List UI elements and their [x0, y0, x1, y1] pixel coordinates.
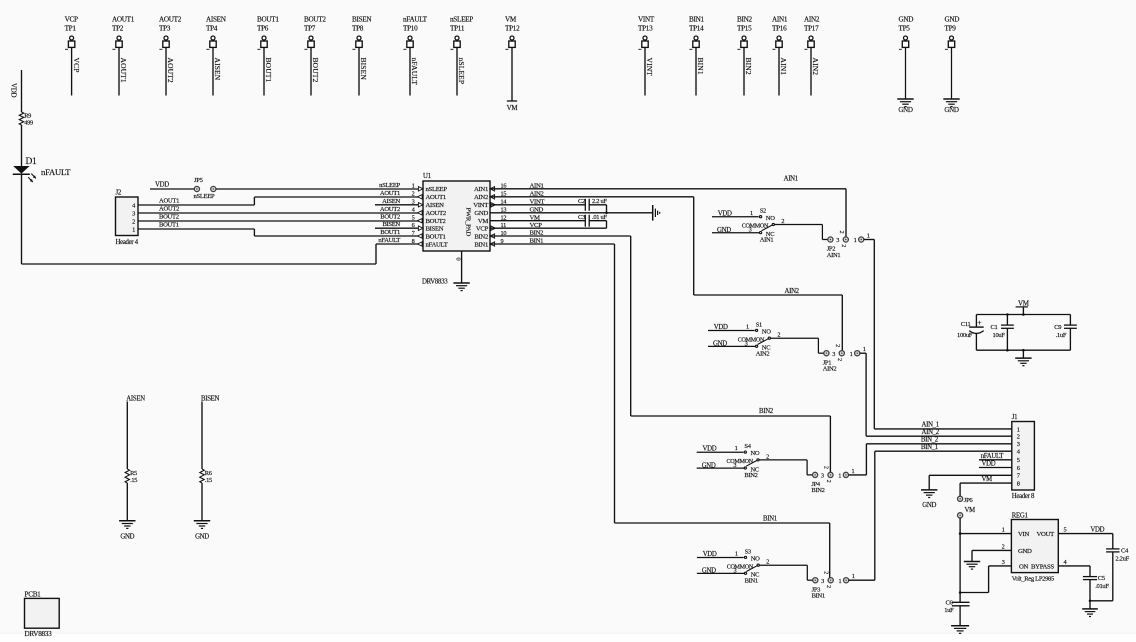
- svg-text:2: 2: [132, 218, 135, 225]
- svg-text:C3: C3: [578, 214, 585, 221]
- svg-text:3: 3: [821, 473, 824, 480]
- svg-text:VCP: VCP: [476, 226, 489, 233]
- svg-text:AIN_2: AIN_2: [922, 429, 940, 436]
- svg-text:TP13: TP13: [638, 25, 653, 33]
- svg-text:AIN1: AIN1: [827, 252, 841, 259]
- svg-text:1: 1: [746, 324, 749, 331]
- svg-text:VIN: VIN: [1018, 531, 1029, 538]
- svg-text:BOUT1: BOUT1: [264, 58, 273, 83]
- svg-text:S4: S4: [744, 443, 751, 450]
- svg-text:R6: R6: [205, 470, 212, 477]
- svg-text:VM: VM: [478, 218, 489, 225]
- svg-text:1: 1: [854, 237, 857, 244]
- svg-text:C2: C2: [578, 198, 585, 205]
- svg-text:AIN2: AIN2: [823, 366, 837, 373]
- svg-text:AIN2: AIN2: [804, 16, 820, 24]
- svg-text:TP11: TP11: [450, 25, 465, 33]
- svg-text:3: 3: [749, 227, 752, 234]
- svg-text:U1: U1: [423, 173, 431, 180]
- svg-text:AIN1: AIN1: [772, 16, 788, 24]
- svg-text:C9: C9: [1054, 324, 1061, 331]
- svg-text:PWR_PAD: PWR_PAD: [465, 208, 472, 237]
- svg-text:AOUT1: AOUT1: [112, 16, 135, 24]
- svg-text:TP6: TP6: [257, 25, 269, 33]
- svg-text:BOUT2: BOUT2: [304, 16, 326, 24]
- svg-text:AOUT1: AOUT1: [380, 190, 400, 197]
- svg-text:NO: NO: [751, 450, 760, 457]
- svg-text:Header 4: Header 4: [116, 239, 139, 246]
- svg-text:2: 2: [412, 191, 415, 198]
- svg-text:2: 2: [838, 231, 844, 234]
- svg-text:1: 1: [867, 232, 870, 239]
- svg-text:1: 1: [412, 183, 415, 190]
- svg-text:2: 2: [823, 466, 829, 469]
- svg-text:VM: VM: [965, 507, 976, 514]
- svg-text:BOUT1: BOUT1: [257, 16, 279, 24]
- svg-text:2: 2: [777, 332, 780, 339]
- svg-text:2: 2: [1002, 544, 1005, 551]
- svg-text:AOUT2: AOUT2: [426, 210, 446, 217]
- svg-text:3: 3: [132, 210, 135, 217]
- svg-text:BIN2: BIN2: [811, 487, 824, 494]
- svg-text:AIN2: AIN2: [811, 58, 820, 76]
- svg-text:BISEN: BISEN: [359, 58, 368, 81]
- svg-text:1: 1: [838, 473, 841, 480]
- svg-text:VCP: VCP: [65, 16, 78, 24]
- svg-text:AISEN: AISEN: [206, 16, 227, 24]
- svg-text:AIN2: AIN2: [756, 350, 770, 357]
- svg-text:TP2: TP2: [112, 25, 124, 33]
- svg-text:2: 2: [781, 218, 784, 225]
- svg-text:3: 3: [734, 567, 737, 574]
- svg-text:VM: VM: [505, 16, 517, 24]
- svg-text:NO: NO: [766, 215, 775, 222]
- svg-text:3: 3: [745, 340, 748, 347]
- svg-text:GND: GND: [898, 106, 913, 114]
- svg-text:BISEN: BISEN: [382, 221, 400, 228]
- svg-text:TP9: TP9: [945, 25, 957, 33]
- svg-text:JP6: JP6: [964, 497, 974, 504]
- svg-text:2: 2: [1017, 434, 1020, 441]
- svg-text:3: 3: [1017, 441, 1020, 448]
- svg-text:BIN1: BIN1: [689, 16, 704, 24]
- svg-text:1: 1: [132, 226, 135, 233]
- svg-text:nSLEEP: nSLEEP: [379, 182, 401, 189]
- svg-text:6: 6: [1017, 465, 1020, 472]
- svg-text:.15: .15: [130, 477, 137, 484]
- svg-text:BOUT1: BOUT1: [159, 221, 179, 228]
- svg-text:nFAULT: nFAULT: [981, 453, 1005, 460]
- svg-text:Header 8: Header 8: [1012, 493, 1035, 500]
- svg-text:1: 1: [839, 578, 842, 585]
- svg-text:VDD: VDD: [982, 461, 996, 468]
- svg-text:TP15: TP15: [737, 25, 752, 33]
- svg-text:5: 5: [1064, 527, 1067, 534]
- svg-text:3: 3: [832, 351, 835, 358]
- svg-text:REG1: REG1: [1012, 512, 1028, 519]
- svg-text:AIN2: AIN2: [474, 194, 488, 201]
- svg-text:DRV8833: DRV8833: [422, 279, 448, 286]
- svg-text:1: 1: [852, 573, 855, 580]
- svg-text:nSLEEP: nSLEEP: [457, 58, 466, 85]
- svg-text:.01uF: .01uF: [1095, 583, 1109, 590]
- svg-text:nFAULT: nFAULT: [410, 58, 419, 86]
- svg-text:100uF: 100uF: [957, 332, 973, 339]
- svg-text:2: 2: [825, 585, 831, 588]
- svg-text:VCP: VCP: [72, 58, 81, 73]
- svg-text:BOUT2: BOUT2: [426, 218, 446, 225]
- svg-text:AOUT2: AOUT2: [159, 205, 179, 212]
- svg-text:GND: GND: [474, 210, 488, 217]
- svg-text:VOUT: VOUT: [1037, 531, 1055, 538]
- svg-text:BIN1: BIN1: [763, 515, 777, 522]
- svg-text:AISEN: AISEN: [213, 58, 222, 81]
- svg-text:2: 2: [766, 453, 769, 460]
- svg-text:VDD: VDD: [1090, 527, 1104, 534]
- svg-text:BIN1: BIN1: [812, 593, 825, 600]
- svg-text:VM: VM: [982, 476, 993, 483]
- svg-text:C11: C11: [961, 321, 971, 328]
- svg-text:nSLEEP: nSLEEP: [426, 186, 448, 193]
- svg-text:5: 5: [1017, 457, 1020, 464]
- svg-text:AIN_1: AIN_1: [922, 422, 939, 429]
- svg-text:C6: C6: [946, 600, 954, 607]
- svg-text:BYPASS: BYPASS: [1031, 563, 1054, 570]
- svg-text:AISEN: AISEN: [426, 202, 445, 209]
- svg-text:2.2uF: 2.2uF: [1115, 555, 1129, 562]
- svg-text:VINT: VINT: [638, 16, 655, 24]
- svg-text:C5: C5: [1098, 575, 1105, 582]
- svg-text:nFAULT: nFAULT: [426, 241, 448, 248]
- svg-text:AOUT2: AOUT2: [380, 206, 400, 213]
- svg-text:BIN_2: BIN_2: [921, 437, 939, 444]
- svg-text:J1: J1: [1012, 414, 1017, 421]
- svg-text:BIN2: BIN2: [759, 408, 774, 415]
- svg-text:AISEN: AISEN: [382, 198, 400, 205]
- svg-text:R5: R5: [130, 470, 137, 477]
- svg-text:2: 2: [836, 358, 842, 361]
- svg-text:1: 1: [863, 346, 866, 353]
- svg-text:BISEN: BISEN: [201, 395, 220, 402]
- svg-text:PCB1: PCB1: [25, 591, 42, 599]
- svg-text:BIN1: BIN1: [696, 58, 705, 75]
- svg-text:2: 2: [840, 244, 846, 247]
- svg-text:JP5: JP5: [194, 177, 204, 184]
- svg-text:499: 499: [24, 120, 33, 127]
- svg-text:BOUT2: BOUT2: [311, 58, 320, 83]
- svg-text:C1: C1: [991, 324, 998, 331]
- svg-text:NO: NO: [751, 556, 760, 563]
- svg-text:GND: GND: [945, 16, 960, 24]
- svg-text:TP17: TP17: [804, 25, 819, 33]
- svg-text:VDD: VDD: [10, 83, 18, 98]
- svg-text:BOUT1: BOUT1: [380, 229, 400, 236]
- svg-text:TP10: TP10: [403, 25, 418, 33]
- svg-text:AIN1: AIN1: [760, 237, 774, 244]
- svg-text:C4: C4: [1121, 547, 1129, 554]
- svg-text:BIN_1: BIN_1: [921, 444, 938, 451]
- svg-text:BIN1: BIN1: [745, 577, 758, 584]
- svg-text:.1uF: .1uF: [1056, 332, 1067, 339]
- svg-text:J2: J2: [116, 190, 122, 197]
- svg-text:TP5: TP5: [899, 25, 911, 33]
- svg-text:TP1: TP1: [65, 25, 77, 33]
- svg-text:R9: R9: [24, 113, 31, 120]
- svg-text:8: 8: [1017, 481, 1020, 488]
- svg-text:nSLEEP: nSLEEP: [450, 16, 473, 24]
- svg-text:AIN1: AIN1: [474, 186, 488, 193]
- svg-text:TP3: TP3: [159, 25, 171, 33]
- svg-text:1: 1: [750, 210, 753, 217]
- svg-text:VDD: VDD: [155, 182, 169, 189]
- svg-text:AOUT2: AOUT2: [166, 58, 175, 83]
- svg-text:VM: VM: [1018, 299, 1030, 307]
- svg-text:GND: GND: [120, 534, 134, 541]
- svg-text:1: 1: [735, 445, 738, 452]
- svg-text:1: 1: [852, 468, 855, 475]
- svg-text:ON: ON: [1019, 563, 1029, 570]
- svg-text:7: 7: [412, 230, 415, 237]
- svg-text:2: 2: [825, 480, 831, 483]
- svg-text:S1: S1: [756, 321, 762, 328]
- svg-text:AIN1: AIN1: [779, 58, 788, 76]
- svg-text:AOUT1: AOUT1: [119, 58, 128, 83]
- svg-text:BOUT2: BOUT2: [380, 214, 400, 221]
- svg-text:3: 3: [733, 462, 736, 469]
- svg-text:NO: NO: [762, 329, 771, 336]
- svg-text:VINT: VINT: [645, 58, 654, 77]
- svg-text:Volt_Reg LP2985: Volt_Reg LP2985: [1012, 576, 1054, 583]
- svg-text:nFAULT: nFAULT: [41, 167, 71, 177]
- svg-text:DRV8833: DRV8833: [25, 630, 53, 638]
- svg-text:BIN2: BIN2: [744, 472, 757, 479]
- svg-text:TP7: TP7: [304, 25, 316, 33]
- svg-text:2: 2: [834, 344, 840, 347]
- svg-text:BIN2: BIN2: [474, 233, 488, 240]
- svg-text:3: 3: [1002, 559, 1005, 566]
- svg-text:TP16: TP16: [772, 25, 787, 33]
- svg-text:5: 5: [412, 215, 415, 222]
- svg-text:GND: GND: [944, 106, 959, 114]
- svg-text:AISEN: AISEN: [126, 395, 145, 402]
- svg-text:TP14: TP14: [689, 25, 704, 33]
- svg-text:AIN1: AIN1: [784, 176, 798, 183]
- svg-text:BIN1: BIN1: [474, 241, 488, 248]
- svg-text:3: 3: [821, 578, 824, 585]
- svg-text:AOUT1: AOUT1: [426, 194, 446, 201]
- svg-text:1: 1: [1017, 426, 1020, 433]
- svg-text:TP12: TP12: [505, 25, 520, 33]
- svg-text:nSLEEP: nSLEEP: [194, 193, 216, 200]
- svg-text:nFAULT: nFAULT: [403, 16, 428, 24]
- svg-text:BOUT1: BOUT1: [426, 233, 446, 240]
- svg-text:S3: S3: [745, 548, 751, 555]
- svg-text:VINT: VINT: [473, 202, 488, 209]
- svg-text:AOUT1: AOUT1: [159, 197, 179, 204]
- svg-text:1: 1: [735, 551, 738, 558]
- svg-text:BISEN: BISEN: [352, 16, 372, 24]
- svg-text:GND: GND: [899, 16, 914, 24]
- svg-text:2: 2: [823, 571, 829, 574]
- svg-text:BIN2: BIN2: [737, 16, 752, 24]
- svg-text:1uF: 1uF: [944, 607, 954, 614]
- svg-text:BOUT2: BOUT2: [159, 213, 179, 220]
- svg-text:AOUT2: AOUT2: [159, 16, 182, 24]
- svg-text:VM: VM: [507, 104, 519, 112]
- svg-text:1: 1: [850, 351, 853, 358]
- svg-text:.15: .15: [205, 477, 212, 484]
- svg-text:GND: GND: [922, 502, 936, 509]
- svg-text:TP8: TP8: [352, 25, 364, 33]
- svg-text:S2: S2: [760, 208, 766, 215]
- svg-text:AIN2: AIN2: [785, 288, 800, 295]
- svg-text:BIN2: BIN2: [744, 58, 753, 75]
- svg-text:1: 1: [1002, 527, 1005, 534]
- svg-text:TP4: TP4: [206, 25, 218, 33]
- svg-text:D1: D1: [26, 157, 38, 167]
- svg-text:10uF: 10uF: [993, 332, 1006, 339]
- svg-text:2: 2: [766, 559, 769, 566]
- svg-text:0: 0: [455, 258, 462, 261]
- svg-text:nFAULT: nFAULT: [378, 237, 400, 244]
- svg-text:GND: GND: [1018, 548, 1032, 555]
- svg-text:GND: GND: [195, 534, 209, 541]
- svg-text:3: 3: [836, 237, 839, 244]
- svg-text:BISEN: BISEN: [426, 226, 444, 233]
